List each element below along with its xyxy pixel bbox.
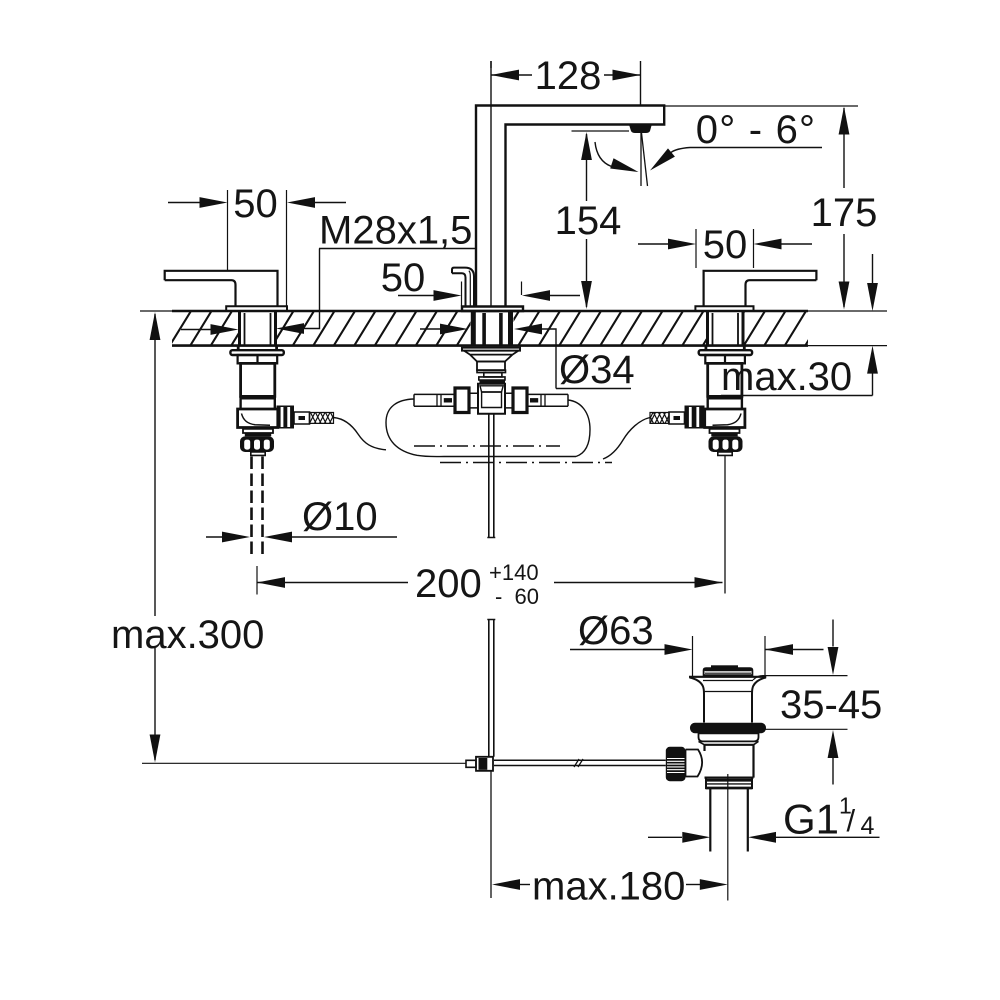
left handle lever and body bbox=[165, 271, 278, 306]
drain o-ring seal bbox=[690, 723, 766, 733]
left valve lower connector bbox=[243, 429, 273, 433]
dimension 50 left: extension lines bbox=[228, 190, 287, 306]
dimension diameter 10 bbox=[206, 532, 397, 543]
svg-text:154: 154 bbox=[555, 199, 622, 243]
svg-text:4: 4 bbox=[861, 812, 875, 840]
right valve body bbox=[708, 363, 742, 396]
counter bottom edge bbox=[172, 344, 808, 347]
hose loop dash-dot centerlines bbox=[414, 445, 560, 447]
drain neck bbox=[699, 733, 759, 741]
drain center line bbox=[727, 774, 729, 901]
svg-text:128: 128 bbox=[535, 54, 602, 98]
counter hatching bbox=[149, 311, 827, 346]
tee right cone nut bbox=[513, 388, 527, 413]
dimension max.300 bbox=[150, 312, 161, 763]
drain pop-up cap top tier bbox=[711, 665, 738, 668]
arm joint nub bbox=[466, 760, 476, 767]
right valve lower connector bbox=[710, 429, 740, 433]
right valve pipe socket bbox=[718, 452, 732, 455]
left handle flange bbox=[226, 306, 287, 311]
0-6 leader with arrow bbox=[671, 148, 822, 153]
left hose braided section bbox=[310, 413, 334, 424]
drain pop-up cap bbox=[704, 668, 753, 675]
svg-text:0° - 6°: 0° - 6° bbox=[696, 108, 816, 152]
center shank in counter bbox=[473, 311, 510, 347]
dimension 50 right: extension lines bbox=[696, 229, 754, 268]
drain knurled knob bbox=[666, 747, 686, 781]
right handle flange bbox=[695, 306, 753, 311]
spout base flange bbox=[462, 307, 523, 312]
left valve shank in counter bbox=[240, 311, 276, 347]
center block bbox=[477, 362, 505, 371]
swivel arc with arrow bbox=[595, 142, 612, 167]
dimension 200 with tolerance bbox=[256, 566, 258, 595]
drain collar bbox=[706, 778, 752, 789]
drain bell bbox=[689, 676, 766, 678]
dimension 50 right bbox=[638, 239, 812, 250]
dimension 154 bbox=[581, 132, 592, 309]
right valve shank in counter bbox=[708, 311, 744, 347]
dimension 175 bbox=[839, 107, 850, 310]
arm joint block bbox=[476, 757, 493, 771]
dimension 175 reference line bbox=[664, 105, 858, 107]
spout pull-rod hidden line / dim extension bbox=[490, 61, 492, 307]
left valve upper nut bbox=[238, 355, 278, 363]
right valve upper nut bbox=[705, 355, 745, 363]
left shank pointer arrow bbox=[181, 329, 211, 331]
left valve locknut bbox=[230, 350, 283, 355]
svg-text:- 60: - 60 bbox=[495, 584, 539, 609]
dimension 35-45 bbox=[828, 620, 839, 785]
left valve shank below counter bbox=[238, 346, 276, 351]
right valve center line bbox=[724, 455, 726, 593]
center pull rod lower bbox=[487, 620, 495, 757]
right valve lower nut bbox=[709, 436, 743, 452]
tee right pipe bbox=[527, 394, 568, 406]
left valve lower nut bbox=[240, 436, 274, 452]
tee left cone nut bbox=[455, 388, 469, 413]
dimension 128 bbox=[491, 61, 641, 106]
aerator bbox=[629, 125, 652, 134]
svg-text:max.300: max.300 bbox=[111, 613, 264, 657]
svg-text:50: 50 bbox=[381, 256, 426, 300]
spout swivel 6deg line bbox=[642, 133, 648, 186]
right hose fitting bbox=[669, 412, 685, 424]
left valve elbow bbox=[238, 409, 278, 428]
drain body bbox=[705, 745, 754, 778]
center tee stack bbox=[477, 370, 506, 372]
dimension 50 center bbox=[398, 290, 580, 301]
left valve pipe socket bbox=[251, 452, 265, 455]
svg-text:/: / bbox=[847, 803, 856, 838]
max.300 bottom reference line bbox=[142, 762, 466, 764]
left supply pipes dashed bbox=[252, 457, 263, 557]
right valve elbow bbox=[705, 409, 745, 428]
left hose nut bbox=[277, 406, 295, 429]
dimension diameter 63 bbox=[693, 636, 766, 677]
center pull-rod knob bbox=[452, 268, 474, 307]
right valve locknut bbox=[699, 350, 752, 355]
left hose fitting bbox=[294, 412, 310, 424]
center locknut bbox=[462, 348, 520, 351]
right hose braided section bbox=[650, 413, 669, 424]
svg-text:Ø10: Ø10 bbox=[302, 495, 378, 539]
dimension 50 center: extension lines bbox=[462, 282, 522, 307]
svg-text:175: 175 bbox=[811, 191, 878, 235]
dimension 50 left bbox=[168, 197, 346, 208]
right valve shank below counter bbox=[706, 346, 744, 351]
center pull rod upper bbox=[487, 414, 495, 538]
svg-text:50: 50 bbox=[703, 223, 748, 267]
svg-text:max.180: max.180 bbox=[532, 865, 685, 909]
svg-text:M28x1,5: M28x1,5 bbox=[319, 209, 472, 253]
svg-text:50: 50 bbox=[233, 182, 278, 226]
center tee body bbox=[478, 384, 505, 414]
svg-text:35-45: 35-45 bbox=[780, 683, 882, 727]
drain actuating arm bbox=[494, 760, 666, 765]
drain side outlet bbox=[686, 750, 703, 777]
dimension 35-45 reference lines bbox=[753, 676, 848, 680]
left flex hose curve bbox=[334, 418, 387, 450]
counter top edge bbox=[140, 310, 172, 312]
center shank pointer arrow bbox=[420, 328, 441, 330]
right handle lever and body bbox=[704, 271, 817, 306]
tee left pipe bbox=[414, 394, 455, 406]
hose loop bbox=[386, 399, 590, 457]
dimension max.180 bbox=[492, 879, 728, 890]
aerator reference line bbox=[572, 130, 630, 132]
svg-text:G1: G1 bbox=[783, 796, 839, 843]
svg-text:200: 200 bbox=[415, 562, 482, 606]
left valve body bbox=[241, 363, 275, 396]
svg-text:Ø34: Ø34 bbox=[559, 348, 635, 392]
right hose nut bbox=[685, 406, 705, 429]
spout body outline bbox=[476, 106, 664, 307]
spout swivel 0deg line bbox=[640, 133, 642, 186]
svg-text:+140: +140 bbox=[489, 560, 539, 585]
right flex hose curve bbox=[603, 418, 650, 460]
drain tailpipe bbox=[710, 789, 748, 852]
svg-text:Ø63: Ø63 bbox=[578, 609, 654, 653]
